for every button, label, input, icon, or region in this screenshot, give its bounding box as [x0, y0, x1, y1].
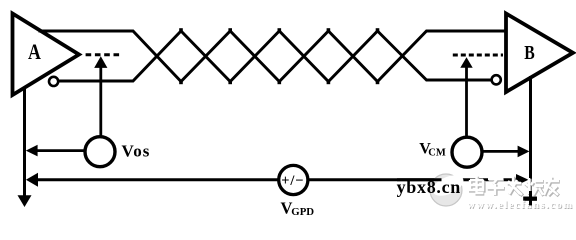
node dots at twist vertices (top) — [179, 28, 379, 32]
arrow from VCM to right drop line — [483, 146, 530, 158]
cross termination of B drop (redraw above watermark) — [523, 191, 537, 205]
wire: ground potential difference line (right segment) — [308, 178, 518, 181]
svg-text:Vos: Vos — [122, 141, 151, 160]
svg-text:ybx8.cn: ybx8.cn — [397, 177, 461, 197]
wire: drop from A ground lead, down-arrow to ground reference — [18, 87, 32, 208]
wire: twisted pair conductor 2 (from A bubble lead, zigzag, to B bubble lead) — [58, 31, 491, 82]
dashed output line of A — [86, 53, 120, 56]
arrow from VCM up to B input dashed line — [460, 57, 472, 136]
arrowhead left on GPD line — [26, 173, 38, 187]
source VCM circle — [452, 137, 482, 167]
watermark CJK glyphs (emboss imitation) — [471, 177, 560, 196]
svg-text:GPD: GPD — [291, 206, 314, 218]
svg-text:+/−: +/− — [281, 173, 304, 189]
source VGPD circle — [279, 165, 308, 194]
arrowhead right on GPD line — [516, 174, 529, 186]
op-amp A — [13, 14, 80, 96]
arrow from Vos to left reference line — [26, 145, 85, 157]
arrow from Vos up to A output dashed line — [94, 56, 107, 137]
svg-text:CM: CM — [428, 147, 446, 158]
wire: twisted pair conductor 1 (from A top lead, zigzag, to B top lead) — [39, 31, 506, 82]
wire: drop from B ground lead with cross termination — [523, 76, 537, 205]
bubble on A inverted output — [49, 77, 58, 86]
op-amp B — [506, 14, 573, 93]
svg-text:www.elecfans.com: www.elecfans.com — [467, 200, 573, 211]
watermark logo circle — [429, 171, 466, 206]
wire: GPD line redraw over logo left part — [397, 178, 442, 181]
wire: ground potential difference line (left segment) — [30, 178, 279, 181]
node dots at twist vertices (bottom) — [179, 81, 379, 85]
svg-text:A: A — [28, 39, 41, 64]
bubble on B inverting input — [492, 75, 501, 84]
dashed input line of B — [453, 54, 503, 57]
source Vos circle — [85, 137, 115, 167]
svg-text:B: B — [524, 43, 535, 64]
